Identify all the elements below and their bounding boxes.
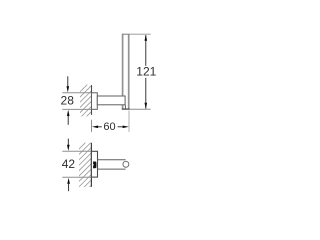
wall edge line (upper view) — [91, 85, 93, 115]
wall hatching (lower view) — [77, 135, 94, 200]
post top cap — [122, 33, 130, 35]
dimension line 121 with arrows — [145, 35, 148, 109]
dimension arrow 42 bottom (up) — [67, 178, 70, 192]
dimension arrow 28 bottom (up) — [67, 110, 70, 125]
dimension line 60 with arrows — [92, 126, 129, 129]
arm end line down to base — [124, 105, 126, 109]
wall hatching (upper view) — [78, 79, 93, 130]
42 bottom extension line — [62, 176, 91, 178]
60 right extension line (below post) — [128, 111, 130, 132]
60 left extension line (below wall) — [91, 120, 93, 132]
extension line, 28 bottom — [62, 108, 91, 110]
clip detail (black) — [93, 162, 96, 169]
svg-text:60: 60 — [103, 121, 115, 133]
peg / roll holder arm (lower view) — [98, 160, 126, 169]
121 top extension line — [130, 33, 151, 35]
extension line, 28 top — [62, 92, 91, 94]
peg ball end — [123, 161, 129, 167]
mounting plate (upper view) — [92, 93, 98, 110]
wall edge line (lower view) — [90, 143, 92, 187]
post (vertical bar) — [123, 35, 129, 109]
svg-text:42: 42 — [62, 157, 76, 171]
42 top extension line — [62, 150, 91, 152]
post bottom cap — [122, 108, 130, 110]
121 bottom extension line — [130, 108, 151, 110]
svg-text:28: 28 — [61, 93, 75, 107]
arm (horizontal bar, upper view) — [97, 96, 125, 105]
mounting plate (lower view) — [91, 151, 97, 177]
dimension arrow 28 top (down) — [67, 76, 70, 92]
dimension arrow 42 top (down) — [67, 139, 70, 151]
svg-text:121: 121 — [136, 64, 156, 78]
